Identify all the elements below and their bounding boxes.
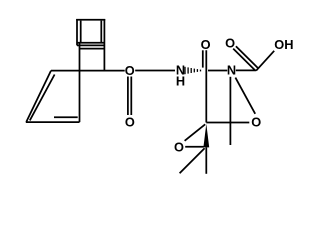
acid C=O slant line b — [233, 49, 255, 71]
wire N to acid carbon — [236, 69, 256, 71]
svg-text:O: O — [251, 114, 261, 129]
main chain wire left — [51, 70, 125, 72]
amide C=O line b plus ring left edge — [205, 50, 207, 122]
azetidine right vertical with methyl — [229, 77, 231, 145]
hashed wedge bond N to stereocenter — [185, 67, 201, 74]
cyclopentene bottom bond — [26, 121, 80, 123]
azetidine bottom bond to O — [206, 122, 249, 124]
epoxide O to gem carbon bond — [185, 146, 203, 148]
square bottom edge — [77, 42, 104, 44]
square inner double-bond line right — [100, 21, 102, 42]
ester C=O double bond line a — [127, 77, 129, 116]
svg-text:O: O — [174, 140, 184, 155]
svg-text:OH: OH — [274, 37, 293, 52]
N-O slant bond — [235, 78, 255, 114]
wire O to NH — [135, 70, 175, 72]
methyl bond down-left — [180, 148, 205, 173]
svg-text:O: O — [225, 35, 235, 50]
cyclobutadiene square ring top edge — [76, 19, 105, 21]
methyl bond down — [205, 147, 207, 173]
wire C to ring N — [208, 70, 227, 72]
exocyclic double-bond horizontal — [77, 44, 104, 46]
square right edge extended down to chain — [103, 19, 105, 71]
svg-text:H: H — [176, 74, 185, 89]
acid C=O slant line a — [236, 46, 259, 68]
square inner double-bond line left — [80, 21, 82, 42]
epoxide O to ring corner bond — [185, 124, 206, 141]
ring left vertical wire down to diene ring — [79, 43, 81, 122]
cyclopentene bottom inner double-bond line — [54, 116, 78, 118]
svg-text:O: O — [125, 114, 135, 129]
solid wedge bond to epoxide carbon — [203, 124, 209, 148]
svg-text:N: N — [227, 63, 236, 78]
square left edge extended to exocyclic bond — [76, 19, 78, 45]
svg-text:O: O — [201, 37, 211, 52]
svg-text:O: O — [125, 63, 135, 78]
cyclopentene outer slant bond — [26, 71, 51, 122]
ester C=O double bond line b — [130, 77, 132, 116]
C-OH bond — [256, 51, 274, 71]
cyclobutene ring top edge — [80, 48, 105, 50]
cyclopentene inner slant double-bond line — [30, 75, 55, 121]
amide C=O double bond line a — [202, 50, 204, 67]
